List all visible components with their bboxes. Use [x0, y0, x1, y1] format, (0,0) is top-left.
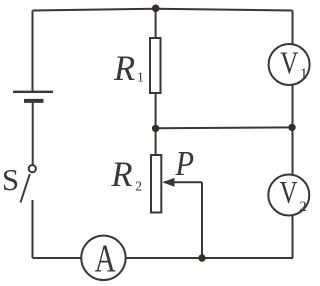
svg-text:V: V [280, 175, 298, 211]
svg-text:2: 2 [135, 180, 142, 195]
svg-text:P: P [175, 145, 194, 183]
svg-text:R: R [113, 48, 135, 88]
svg-text:A: A [95, 237, 116, 280]
svg-text:1: 1 [300, 66, 308, 83]
svg-text:S: S [2, 162, 19, 197]
svg-text:2: 2 [299, 199, 307, 215]
svg-text:1: 1 [137, 70, 144, 85]
svg-text:R: R [110, 154, 132, 194]
svg-text:V: V [280, 46, 298, 82]
